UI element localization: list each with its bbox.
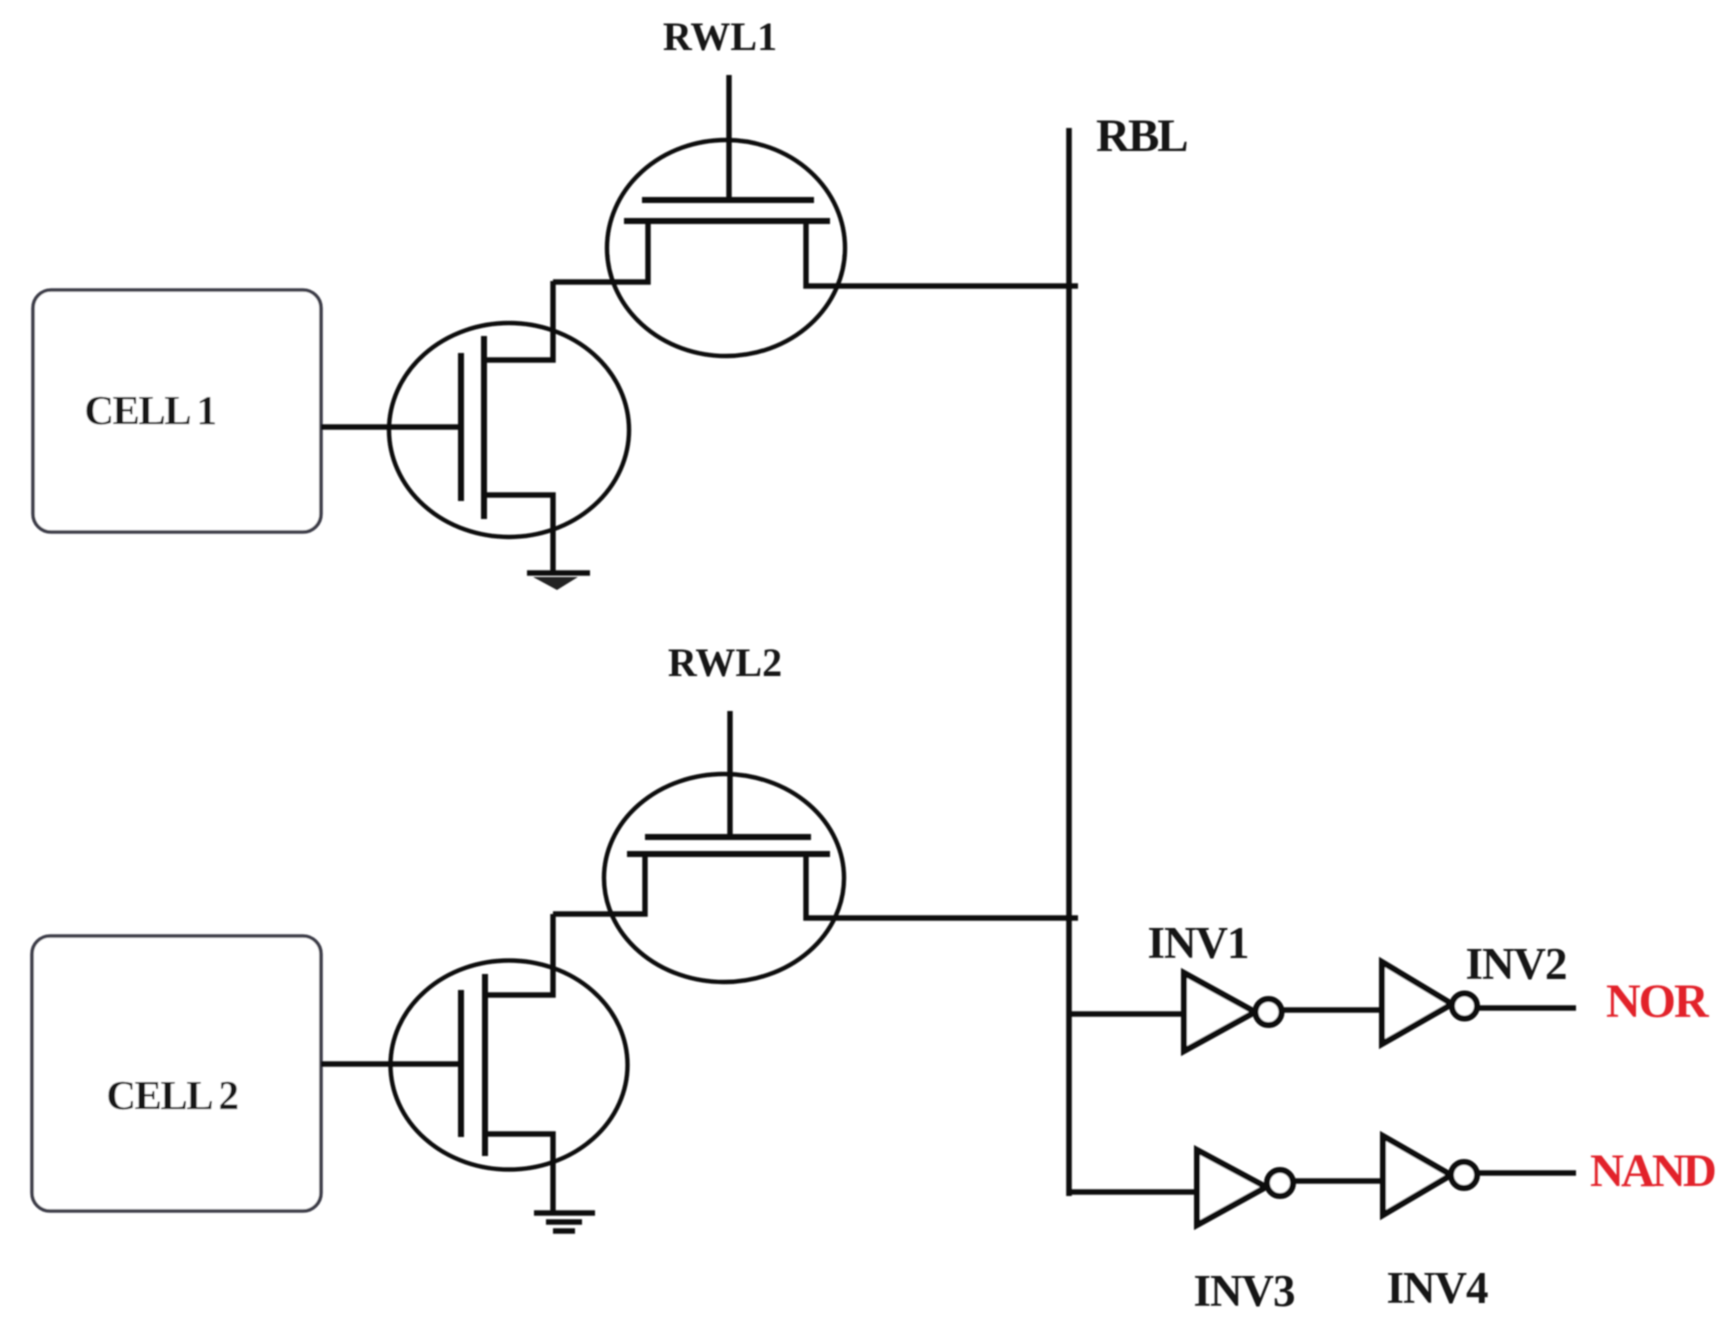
- svg-text:RWL2: RWL2: [668, 640, 782, 685]
- svg-text:INV1: INV1: [1147, 918, 1248, 968]
- svg-text:INV2: INV2: [1465, 939, 1566, 989]
- svg-text:CELL 1: CELL 1: [84, 387, 215, 433]
- svg-text:CELL 2: CELL 2: [106, 1072, 237, 1118]
- svg-text:INV3: INV3: [1193, 1266, 1294, 1316]
- svg-text:NOR: NOR: [1606, 975, 1710, 1028]
- svg-text:RBL: RBL: [1096, 110, 1187, 162]
- svg-text:RWL1: RWL1: [663, 14, 777, 59]
- svg-text:NAND: NAND: [1590, 1145, 1715, 1197]
- svg-text:INV4: INV4: [1386, 1263, 1488, 1313]
